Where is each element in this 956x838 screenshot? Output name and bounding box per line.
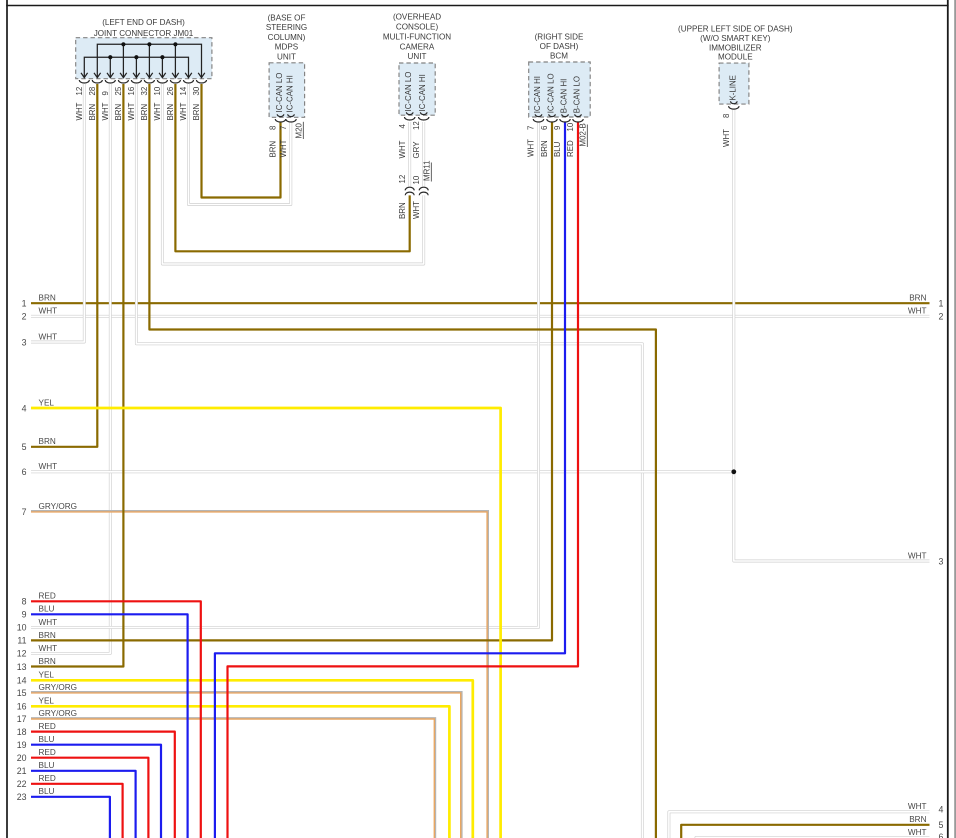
joint connector JM01 lower bus xyxy=(84,57,188,77)
wire GRY camera pin 12 to MR11 pin 10 xyxy=(422,122,425,187)
svg-text:IMMOBILIZER: IMMOBILIZER xyxy=(709,43,762,52)
node left stub 21 BLU xyxy=(17,761,55,776)
svg-text:8: 8 xyxy=(269,125,278,130)
svg-text:30: 30 xyxy=(192,86,201,95)
svg-text:GRY/ORG: GRY/ORG xyxy=(39,502,78,511)
svg-text:BRN: BRN xyxy=(39,631,56,640)
svg-text:(OVERHEAD: (OVERHEAD xyxy=(393,13,441,22)
svg-text:9: 9 xyxy=(101,91,110,96)
svg-text:9: 9 xyxy=(22,610,27,620)
svg-text:7: 7 xyxy=(279,126,288,130)
svg-text:UNIT: UNIT xyxy=(408,52,427,61)
svg-text:M20: M20 xyxy=(295,123,304,139)
svg-text:BRN: BRN xyxy=(909,815,926,824)
svg-text:MDPS: MDPS xyxy=(275,43,299,52)
svg-text:BRN: BRN xyxy=(39,657,56,666)
svg-text:YEL: YEL xyxy=(39,398,55,407)
svg-text:WHT: WHT xyxy=(39,618,58,627)
svg-text:4: 4 xyxy=(398,124,407,129)
wire WHT row2 left stub 2 to right stub 2 xyxy=(31,315,930,318)
joint connector JM01 title xyxy=(94,18,194,38)
JM01 pin terminal arcs xyxy=(79,80,206,83)
wire WHT immobilizer K-LINE pin 8 to right stub 3 xyxy=(734,109,930,561)
svg-text:22: 22 xyxy=(17,779,27,789)
svg-text:9: 9 xyxy=(553,125,562,130)
svg-text:6: 6 xyxy=(939,832,944,838)
immobilizer pin name K-LINE xyxy=(728,75,737,100)
svg-text:WHT: WHT xyxy=(101,102,110,120)
node left stub 16 YEL xyxy=(17,697,55,712)
svg-text:14: 14 xyxy=(179,86,188,95)
wire GRY/ORG left stub 17 down off page xyxy=(31,718,436,838)
node left stub 20 RED xyxy=(17,748,56,763)
svg-text:(RIGHT SIDE: (RIGHT SIDE xyxy=(535,32,584,41)
svg-text:14: 14 xyxy=(17,676,27,686)
svg-text:21: 21 xyxy=(17,766,27,776)
wire BRN row1 left stub 1 to right stub 1 xyxy=(31,302,930,304)
wire WHT camera pin 4 to MR11 pin 12 xyxy=(408,122,411,187)
svg-text:17: 17 xyxy=(17,714,27,724)
svg-text:18: 18 xyxy=(17,727,27,737)
wire BLU left stub 23 down off page xyxy=(31,797,110,838)
svg-text:WHT: WHT xyxy=(75,102,84,120)
svg-text:10: 10 xyxy=(566,122,575,131)
node left stub 9 BLU xyxy=(22,605,55,620)
in-line connector MR11 arcs xyxy=(405,187,428,195)
svg-text:BRN: BRN xyxy=(398,202,407,219)
svg-text:WHT: WHT xyxy=(39,307,58,316)
svg-text:MR11: MR11 xyxy=(423,161,432,181)
svg-text:2: 2 xyxy=(22,312,27,322)
svg-text:26: 26 xyxy=(166,86,175,95)
svg-text:WHT: WHT xyxy=(908,307,927,316)
svg-text:WHT: WHT xyxy=(153,102,162,120)
svg-text:JOINT CONNECTOR JM01: JOINT CONNECTOR JM01 xyxy=(94,29,194,38)
node right stub 2 WHT xyxy=(908,307,944,322)
camera wire color labels WHT GRY xyxy=(398,140,421,158)
JM01 pin numbers xyxy=(75,86,201,95)
svg-text:8: 8 xyxy=(722,113,731,118)
svg-text:10: 10 xyxy=(17,623,27,633)
svg-text:12: 12 xyxy=(398,175,407,184)
wire YEL left stub 14 down off page xyxy=(31,680,473,838)
svg-text:BRN: BRN xyxy=(114,104,123,121)
svg-text:BCM: BCM xyxy=(550,51,568,60)
immobilizer module title xyxy=(678,25,793,62)
svg-text:6: 6 xyxy=(22,467,27,477)
svg-text:MULTI-FUNCTION: MULTI-FUNCTION xyxy=(383,32,451,41)
svg-text:BRN: BRN xyxy=(39,437,56,446)
node right stub 1 BRN xyxy=(909,294,943,309)
node JM01 lower bus junctions xyxy=(108,55,164,59)
svg-text:1: 1 xyxy=(939,299,944,309)
joint connector JM01 box xyxy=(76,38,212,79)
wire RED left stub 22 down off page xyxy=(31,784,123,838)
svg-text:COLUMN): COLUMN) xyxy=(268,33,306,42)
svg-text:13: 13 xyxy=(17,662,27,672)
node left stub 5 BRN xyxy=(22,437,56,452)
BCM wire color labels xyxy=(527,139,576,157)
svg-text:WHT: WHT xyxy=(39,462,58,471)
wire BRN right stub 5 down off page xyxy=(681,825,929,838)
svg-text:BRN: BRN xyxy=(269,141,278,158)
wire WHT right stub 6 down off page xyxy=(696,836,930,838)
node left stub 18 RED xyxy=(17,722,56,737)
node junction row6 WHT with K-LINE xyxy=(731,469,736,474)
svg-text:(BASE OF: (BASE OF xyxy=(268,14,306,23)
svg-text:2: 2 xyxy=(939,312,944,322)
svg-text:WHT: WHT xyxy=(908,828,927,837)
node right stub 4 WHT xyxy=(908,802,944,814)
wire WHT JM01 pin 10 to camera MR11 pin 10 xyxy=(162,84,423,264)
wire WHT left stub 6 to K-LINE junction xyxy=(31,470,734,473)
svg-text:WHT: WHT xyxy=(279,139,288,157)
svg-text:WHT: WHT xyxy=(127,102,136,120)
MDPS wire color labels xyxy=(269,139,289,157)
node left stub 10 WHT xyxy=(17,618,57,633)
svg-text:BLU: BLU xyxy=(553,141,562,157)
svg-text:1: 1 xyxy=(22,299,27,309)
BCM box xyxy=(529,62,591,117)
svg-text:OF DASH): OF DASH) xyxy=(540,42,579,51)
svg-text:10: 10 xyxy=(412,175,421,184)
svg-text:5: 5 xyxy=(939,820,944,830)
svg-text:(UPPER LEFT SIDE OF DASH): (UPPER LEFT SIDE OF DASH) xyxy=(678,25,793,34)
svg-text:32: 32 xyxy=(140,87,149,96)
node left stub 12 WHT xyxy=(17,644,57,659)
svg-text:RED: RED xyxy=(39,774,56,783)
svg-text:K-LINE: K-LINE xyxy=(728,75,737,100)
camera pin names xyxy=(404,72,427,112)
svg-text:WHT: WHT xyxy=(412,201,421,219)
svg-text:BLU: BLU xyxy=(39,761,55,770)
svg-text:(W/O SMART KEY): (W/O SMART KEY) xyxy=(700,34,771,43)
svg-text:20: 20 xyxy=(17,753,27,763)
node left stub 6 WHT xyxy=(22,462,58,477)
wire WHT JM01 pin 16 down-right-down off page xyxy=(136,84,642,838)
wire YEL left stub 16 down off page xyxy=(31,706,449,838)
wire BLU left stub 21 down off page xyxy=(31,771,136,838)
node left stub 7 GRY/ORG xyxy=(22,502,77,517)
BCM connector label M02-B xyxy=(579,123,588,147)
svg-text:5: 5 xyxy=(22,442,27,452)
svg-text:BLU: BLU xyxy=(39,605,55,614)
MR11 pin numbers 12 and 10 xyxy=(398,175,421,185)
node left stub 11 BRN xyxy=(17,631,56,646)
node left stub 13 BRN xyxy=(17,657,56,672)
wire WHT left stub 3 to JM01 pin 12 xyxy=(31,84,84,342)
svg-text:CAMERA: CAMERA xyxy=(400,42,435,51)
svg-text:12: 12 xyxy=(75,87,84,96)
svg-text:BRN: BRN xyxy=(166,104,175,121)
node right stub 5 BRN xyxy=(909,815,943,830)
svg-text:WHT: WHT xyxy=(527,139,536,157)
immobilizer pin number 8 xyxy=(722,113,731,118)
immobilizer box xyxy=(719,63,749,104)
svg-text:7: 7 xyxy=(527,126,536,130)
node left stub 4 YEL xyxy=(22,398,55,413)
wire BRN JM01 pin 30 to MDPS pin 8 xyxy=(202,84,281,198)
svg-text:IC-CAN LO: IC-CAN LO xyxy=(275,73,284,113)
svg-text:UNIT: UNIT xyxy=(277,52,296,61)
svg-text:WHT: WHT xyxy=(39,644,58,653)
svg-text:BRN: BRN xyxy=(540,140,549,157)
immobilizer pin arcs xyxy=(729,101,739,109)
node right stub 3 WHT xyxy=(908,551,944,566)
svg-text:M02-B: M02-B xyxy=(579,123,588,146)
svg-text:RED: RED xyxy=(39,592,56,601)
wire RED left stub 20 down off page xyxy=(31,758,148,838)
wire GRY/ORG left stub 15 down off page xyxy=(31,692,462,838)
svg-text:BRN: BRN xyxy=(140,104,149,121)
node left stub 17 GRY/ORG xyxy=(17,709,77,724)
MDPS pin names xyxy=(275,73,295,113)
wire RED BCM pin 10 down-left-down off page xyxy=(228,122,579,838)
svg-text:23: 23 xyxy=(17,792,27,802)
node left stub 22 RED xyxy=(17,774,56,789)
svg-text:12: 12 xyxy=(412,121,421,130)
svg-text:WHT: WHT xyxy=(722,129,731,147)
svg-text:11: 11 xyxy=(17,636,26,646)
BCM title xyxy=(535,32,584,60)
svg-text:10: 10 xyxy=(153,86,162,95)
node left stub 14 YEL xyxy=(17,671,55,686)
svg-text:4: 4 xyxy=(939,805,944,815)
wire BRN left stub 13 to JM01 pin 25 xyxy=(31,84,123,667)
svg-text:(LEFT END OF DASH): (LEFT END OF DASH) xyxy=(102,18,185,27)
wire WHT left stub 12 to JM01 pin 9 xyxy=(31,84,110,653)
svg-text:BLU: BLU xyxy=(39,787,55,796)
wire BRN JM01 pin 26 to camera MR11 pin 12 xyxy=(175,84,409,251)
svg-text:16: 16 xyxy=(17,702,27,712)
svg-text:WHT: WHT xyxy=(39,332,58,341)
MDPS unit title xyxy=(266,14,307,62)
svg-text:STEERING: STEERING xyxy=(266,23,307,32)
svg-text:BRN: BRN xyxy=(192,104,201,121)
wire BLU left stub 19 down off page xyxy=(31,745,161,838)
wire BRN JM01 pin 32 down-right-down off page xyxy=(149,84,656,838)
multi-function camera unit title xyxy=(383,13,451,62)
svg-text:IC-CAN LO: IC-CAN LO xyxy=(404,72,413,112)
wire RED left stub 18 down off page xyxy=(31,732,175,838)
svg-text:WHT: WHT xyxy=(908,802,927,811)
MDPS pin numbers 8 and 7 xyxy=(269,125,289,130)
svg-text:16: 16 xyxy=(127,86,136,95)
node right stub 6 WHT xyxy=(908,828,944,838)
svg-text:RED: RED xyxy=(39,748,56,757)
BCM pin numbers 7 6 9 10 xyxy=(527,122,576,131)
svg-text:MODULE: MODULE xyxy=(718,53,753,62)
svg-text:GRY: GRY xyxy=(412,141,421,159)
svg-text:IC-CAN HI: IC-CAN HI xyxy=(418,74,427,111)
BCM pin arcs xyxy=(533,114,583,122)
camera pin numbers 4 and 12 xyxy=(398,121,421,130)
svg-text:BRN: BRN xyxy=(39,294,56,303)
svg-text:RED: RED xyxy=(39,722,56,731)
BCM pin names xyxy=(533,73,582,113)
svg-text:3: 3 xyxy=(22,337,27,347)
MDPS unit box xyxy=(269,63,305,118)
svg-text:BRN: BRN xyxy=(88,104,97,121)
svg-text:B-CAN LO: B-CAN LO xyxy=(573,76,582,113)
page border right xyxy=(947,0,949,838)
page border top xyxy=(6,5,948,7)
svg-text:3: 3 xyxy=(939,556,944,566)
svg-text:6: 6 xyxy=(540,125,549,130)
wire GRY/ORG left stub 7 down off page xyxy=(31,511,488,838)
svg-text:25: 25 xyxy=(114,86,123,95)
node JM01 upper bus junctions xyxy=(121,42,177,46)
joint connector JM01 upper bus xyxy=(97,44,201,77)
svg-text:7: 7 xyxy=(22,507,27,517)
wire BRN left stub 11 to BCM pin 6 xyxy=(31,122,552,640)
svg-text:GRY/ORG: GRY/ORG xyxy=(39,709,78,718)
node left stub 19 BLU xyxy=(17,735,55,750)
wire BLU left stub 9 down off page xyxy=(31,614,188,838)
connector label MR11 xyxy=(423,161,432,182)
svg-text:RED: RED xyxy=(566,140,575,157)
immobilizer wire color label WHT xyxy=(722,129,731,147)
node left stub 3 WHT xyxy=(22,332,58,347)
node left stub 8 RED xyxy=(22,592,56,607)
wire WHT left stub 10 to BCM pin 7 xyxy=(31,122,539,627)
svg-text:WHT: WHT xyxy=(908,551,927,560)
node left stub 1 BRN xyxy=(22,294,56,309)
wire BLU BCM pin 9 down-left-down off page xyxy=(215,122,565,838)
svg-text:IC-CAN LO: IC-CAN LO xyxy=(547,73,556,113)
svg-text:YEL: YEL xyxy=(39,697,55,706)
node left stub 2 WHT xyxy=(22,307,58,322)
svg-text:28: 28 xyxy=(88,86,97,95)
svg-text:WHT: WHT xyxy=(398,140,407,158)
page border left xyxy=(6,0,8,838)
MDPS pin arcs xyxy=(275,114,296,122)
svg-text:IC-CAN HI: IC-CAN HI xyxy=(286,75,295,112)
svg-text:BLU: BLU xyxy=(39,735,55,744)
svg-text:IC-CAN HI: IC-CAN HI xyxy=(533,76,542,113)
JM01 wire color labels xyxy=(75,102,201,120)
wire BRN left stub 5 to JM01 pin 28 xyxy=(31,84,97,447)
camera lower wire color labels BRN WHT xyxy=(398,201,421,219)
svg-text:YEL: YEL xyxy=(39,671,55,680)
svg-text:WHT: WHT xyxy=(179,102,188,120)
page edge strip xyxy=(954,0,956,838)
camera unit box xyxy=(399,63,435,115)
svg-text:12: 12 xyxy=(17,649,27,659)
wire RED left stub 8 down off page xyxy=(31,601,201,838)
svg-text:CONSOLE): CONSOLE) xyxy=(396,23,439,32)
svg-text:19: 19 xyxy=(17,740,27,750)
wire YEL left stub 4 down off page xyxy=(31,408,501,838)
svg-text:4: 4 xyxy=(22,403,27,413)
wire WHT JM01 pin 14 to MDPS pin 7 xyxy=(189,84,291,205)
MDPS connector label M20 xyxy=(295,122,304,139)
node left stub 15 GRY/ORG xyxy=(17,683,77,698)
svg-text:B-CAN HI: B-CAN HI xyxy=(560,79,569,114)
svg-text:8: 8 xyxy=(22,597,27,607)
svg-text:15: 15 xyxy=(17,688,27,698)
camera pin arcs xyxy=(405,112,429,120)
svg-text:GRY/ORG: GRY/ORG xyxy=(39,683,78,692)
node left stub 23 BLU xyxy=(17,787,55,802)
wire WHT right stub 4 down off page xyxy=(669,812,930,838)
svg-text:BRN: BRN xyxy=(909,294,926,303)
JM01 arrowheads xyxy=(81,73,205,78)
